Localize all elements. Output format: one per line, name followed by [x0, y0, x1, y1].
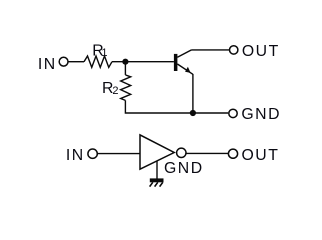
svg-text:OUT: OUT — [242, 43, 280, 60]
svg-text:OUT: OUT — [242, 147, 280, 164]
resistor R2 — [121, 75, 131, 101]
wire inverter to ground symbol — [156, 161, 158, 179]
wire collector to OUT — [192, 49, 230, 51]
terminal GND (top, open circle) — [229, 109, 237, 117]
inverter U1 triangle — [140, 135, 174, 169]
node junction dot (R1/R2/base) — [122, 59, 128, 65]
svg-text:IN: IN — [38, 56, 57, 73]
wire R2 to ground rail — [125, 100, 228, 113]
resistor R1 — [84, 56, 112, 67]
wire IN to R1 — [68, 61, 84, 63]
wire inverter to OUT — [186, 152, 228, 154]
svg-text:1: 1 — [101, 47, 107, 59]
wire node to R2 — [124, 62, 126, 75]
wire R1 to base — [112, 61, 174, 63]
svg-text:GND: GND — [241, 106, 281, 123]
junction dot (emitter/ground rail) — [190, 110, 196, 116]
ground symbol hatch ticks — [150, 182, 153, 186]
terminal IN (bottom, open circle) — [88, 149, 97, 158]
wire IN to inverter — [98, 153, 140, 155]
svg-text:IN: IN — [66, 147, 85, 164]
inverter U1 bubble — [177, 148, 186, 157]
svg-text:GND: GND — [164, 160, 204, 177]
svg-text:2: 2 — [112, 85, 118, 97]
transistor Q1 base bar — [174, 54, 178, 71]
terminal OUT (bottom, open circle) — [228, 149, 237, 158]
transistor Q1 collector — [177, 50, 191, 57]
terminal IN (top, open circle) — [59, 57, 68, 66]
terminal OUT (top, open circle) — [230, 46, 238, 54]
wire emitter to ground rail — [192, 74, 194, 113]
transistor Q1 emitter with arrow — [177, 64, 193, 74]
ground symbol bar — [150, 178, 164, 182]
